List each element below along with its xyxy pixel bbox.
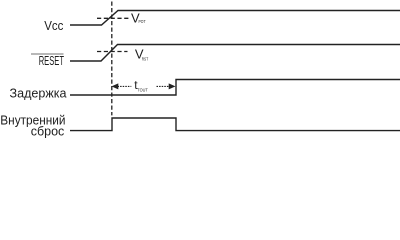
svg-text:Задержка: Задержка — [10, 85, 68, 100]
svg-text:Vcc: Vcc — [44, 18, 64, 33]
svg-text:TOUT: TOUT — [137, 88, 147, 94]
svg-text:RST: RST — [142, 56, 149, 62]
svg-text:RESET: RESET — [39, 53, 64, 68]
svg-text:POT: POT — [139, 19, 146, 25]
svg-text:сброс: сброс — [31, 124, 65, 139]
